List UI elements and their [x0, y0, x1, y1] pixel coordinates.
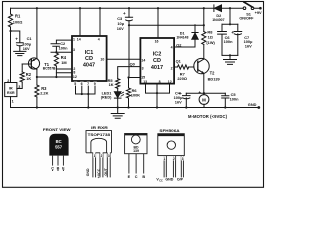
node C3 bottom	[128, 24, 130, 26]
diode D2 1N4007	[213, 5, 215, 12]
node gnd R6	[127, 106, 129, 108]
resistor R4	[54, 53, 58, 66]
svg-text:1: 1	[93, 154, 95, 158]
node R4 bottom pin12	[55, 76, 57, 78]
svg-text:4017: 4017	[151, 65, 163, 71]
svg-text:4: 4	[98, 37, 100, 41]
IC2 bottom pins 13 8 12 stubs and bus	[146, 84, 170, 108]
svg-text:1Ω: 1Ω	[208, 35, 213, 40]
LED1 light arrows	[121, 92, 124, 96]
svg-text:CD: CD	[153, 58, 161, 64]
BC557 pin letters C B E	[51, 166, 55, 171]
wire IR RXR pin1 to ground rail	[10, 97, 12, 108]
wire reset line C3 to D1/R8	[129, 21, 204, 26]
node gnd C5	[224, 106, 226, 108]
SFH506A pin numbers	[163, 156, 166, 161]
svg-text:557: 557	[55, 145, 63, 150]
wire IR RXR pin3 to R2	[17, 82, 22, 89]
resistor R8	[202, 32, 206, 45]
capacitor C6	[218, 24, 227, 55]
switch S1	[243, 7, 246, 10]
svg-text:3: 3	[108, 154, 110, 158]
svg-text:+: +	[179, 91, 182, 96]
wire R8 top to rail	[203, 8, 205, 31]
wire left supply branch	[10, 8, 12, 82]
node rail-pin14	[79, 7, 81, 9]
diode D1 1N4148	[192, 25, 198, 33]
node IC2 bus	[156, 92, 158, 94]
svg-text:BC: BC	[56, 139, 62, 144]
TSOP1738 pin numbers	[93, 153, 96, 158]
svg-text:16V: 16V	[245, 43, 252, 48]
transistor package BC557 TO-92	[49, 134, 68, 156]
+9V terminal dot	[259, 7, 262, 10]
BC557 leads	[53, 156, 64, 171]
svg-text:M: M	[202, 97, 206, 102]
wire +9V rail top	[11, 7, 260, 9]
svg-text:Q1: Q1	[176, 58, 182, 63]
wire R4 top to pin3 node	[55, 51, 57, 54]
node gnd LED	[117, 106, 119, 108]
ground rail bottom	[11, 107, 259, 109]
wire R7 to T2 base	[189, 66, 194, 68]
ground symbol under C1	[14, 51, 26, 55]
svg-text:Q2: Q2	[176, 43, 182, 48]
node T1 collector pin12	[36, 76, 38, 78]
IC1 bottom pins 5 6 7 9 stubs and bus	[76, 81, 96, 108]
node IC1 bus a	[81, 93, 83, 95]
svg-text:CC: CC	[159, 179, 163, 182]
node R4 top	[55, 51, 57, 53]
svg-text:FRONT VIEW: FRONT VIEW	[43, 127, 71, 132]
svg-text:139: 139	[133, 149, 139, 153]
svg-text:8: 8	[73, 70, 75, 74]
node C6C7 mid	[229, 23, 231, 25]
svg-text:100n: 100n	[230, 96, 239, 101]
node rail-C6C7	[229, 7, 231, 9]
svg-text:2: 2	[7, 79, 9, 83]
svg-text:3: 3	[18, 85, 20, 89]
svg-text:GND: GND	[165, 177, 173, 181]
node C1 tap	[9, 30, 11, 32]
svg-text:1M: 1M	[61, 60, 66, 65]
svg-text:+VCC: +VCC	[97, 168, 101, 178]
svg-text:+: +	[198, 90, 201, 95]
svg-text:3: 3	[142, 67, 144, 71]
svg-text:1N4007: 1N4007	[212, 18, 224, 22]
svg-text:12: 12	[73, 75, 77, 79]
svg-text:100K: 100K	[131, 92, 140, 97]
wire T1 collector node	[36, 69, 38, 107]
svg-text:3: 3	[73, 48, 75, 52]
node rail-C3	[128, 7, 130, 9]
svg-text:5: 5	[74, 82, 76, 86]
capacitor C1	[11, 31, 24, 51]
IR receiver module IR RXR	[5, 83, 17, 97]
wire IC2 pin4 Q2 to D1	[174, 46, 195, 48]
ground symbol under LED1	[111, 108, 124, 119]
wire motor node line C4 to C5	[186, 92, 225, 94]
svg-text:O/P: O/P	[177, 177, 184, 181]
svg-text:100n: 100n	[224, 39, 233, 44]
T2 emitter arrow	[201, 71, 204, 74]
wire node to IC1 pin8	[56, 72, 72, 74]
node gnd IC1	[87, 106, 89, 108]
svg-text:1: 1	[12, 99, 14, 103]
svg-text:(1W): (1W)	[206, 40, 215, 45]
svg-text:2.2K: 2.2K	[40, 90, 48, 95]
svg-text:16V: 16V	[117, 26, 124, 31]
svg-text:12: 12	[168, 80, 172, 84]
svg-text:T2: T2	[210, 71, 216, 76]
wire IC2 pin15 to reset node	[129, 77, 140, 79]
svg-text:16V: 16V	[175, 100, 182, 105]
wire T1 emitter to rail	[36, 8, 38, 58]
op-amp substitute: IC1 CD4047 box	[72, 36, 107, 81]
svg-text:Q0: Q0	[130, 61, 135, 66]
wire C6 C7 bottom link	[222, 55, 238, 59]
wire IC1 pin3 timing node	[51, 51, 72, 53]
wire C3 bottom down to IC2 pin15 node	[128, 25, 130, 77]
wire motor to ground rail	[203, 104, 205, 107]
svg-text:GND: GND	[248, 102, 257, 107]
svg-text:+9V: +9V	[255, 10, 262, 15]
svg-text:BC557B: BC557B	[43, 67, 56, 71]
ground symbol under C6 C7	[224, 60, 237, 65]
svg-text:C1: C1	[27, 36, 33, 41]
wire Q0 from IC2 pin3 to R5	[118, 67, 141, 79]
node C6C7 gnd	[229, 54, 231, 56]
svg-text:100Ω: 100Ω	[13, 20, 23, 25]
svg-text:+: +	[15, 37, 18, 42]
wire node to IC1 pin2	[56, 68, 72, 70]
transistor T1	[28, 58, 39, 69]
wire C6 C7 feed from rail	[229, 8, 231, 24]
LED LED1 red	[117, 88, 119, 92]
wire IC1 pin14 to rail	[79, 8, 81, 36]
svg-text:OUT: OUT	[104, 167, 108, 175]
wire R8 to T2 collector	[203, 45, 205, 60]
svg-text:1N4148: 1N4148	[176, 36, 188, 40]
wire IC1 pin10 to IC2 pin14	[107, 58, 141, 60]
node pin15 reset	[127, 76, 129, 78]
resistor R6	[126, 88, 130, 98]
wire C6 C7 top link	[222, 23, 238, 25]
svg-text:ON/OFF: ON/OFF	[239, 17, 254, 21]
node rail-pin16	[157, 7, 159, 9]
IC2 CD4017 box	[140, 38, 174, 84]
svg-text:3: 3	[182, 157, 184, 161]
resistor R3	[35, 85, 39, 97]
svg-text:B: B	[57, 166, 60, 170]
svg-text:100n: 100n	[59, 46, 68, 51]
svg-text:4047: 4047	[83, 62, 95, 68]
svg-text:M-MOTOR (<9VDC): M-MOTOR (<9VDC)	[188, 114, 228, 119]
node gnd C4	[185, 106, 187, 108]
wire IC2 pin2 Q1 to R7	[174, 66, 177, 68]
svg-text:GND: GND	[86, 168, 90, 176]
svg-text:1K: 1K	[26, 76, 31, 81]
svg-text:CD: CD	[85, 56, 93, 62]
svg-text:4: 4	[171, 46, 173, 50]
node rail-T1	[36, 7, 38, 9]
T1 emitter arrow PNP	[32, 59, 35, 61]
svg-text:E: E	[62, 166, 65, 170]
svg-text:9: 9	[94, 82, 96, 86]
node motor top	[203, 92, 205, 94]
svg-text:+: +	[231, 30, 234, 35]
resistor R2	[20, 72, 24, 82]
node R8 top	[203, 24, 205, 26]
svg-text:7: 7	[87, 82, 89, 86]
svg-text:BD139: BD139	[208, 76, 221, 81]
wire R2 top to T1 base	[21, 64, 23, 72]
wire T2 emitter to motor	[203, 73, 205, 94]
svg-text:2: 2	[171, 67, 173, 71]
svg-text:IC2: IC2	[153, 51, 162, 57]
capacitor C4 electrolytic	[183, 93, 191, 107]
svg-text:(RED): (RED)	[101, 96, 112, 100]
svg-text:16V: 16V	[23, 46, 30, 51]
capacitor C2	[51, 40, 72, 52]
border frame	[3, 2, 264, 188]
svg-text:6: 6	[81, 82, 83, 86]
node gnd R3	[36, 106, 38, 108]
capacitor C7 electrolytic	[234, 24, 242, 55]
transistor package BD139 TO-126	[125, 134, 147, 174]
motor M	[199, 95, 209, 105]
resistor R5	[116, 79, 120, 89]
svg-text:IR RXR: IR RXR	[91, 125, 108, 130]
svg-text:14: 14	[77, 37, 81, 41]
svg-text:+: +	[123, 11, 126, 16]
wire collector node to IC1 pin12	[37, 76, 72, 78]
svg-text:IR: IR	[9, 86, 13, 90]
wire IC1 pin4 to rail	[99, 8, 101, 36]
node rail-pin4	[99, 7, 101, 9]
wire C3 to rail	[128, 8, 130, 17]
svg-text:1: 1	[73, 38, 75, 42]
GND terminal dot	[257, 106, 260, 109]
node rail-R8	[203, 7, 205, 9]
svg-text:B: B	[142, 175, 145, 179]
svg-text:14: 14	[141, 59, 145, 63]
svg-text:R1: R1	[15, 14, 21, 19]
svg-text:SFH506A: SFH506A	[159, 129, 180, 133]
capacitor C5	[222, 93, 229, 107]
IR receiver package TSOP1738	[86, 131, 112, 178]
svg-text:1K: 1K	[109, 82, 114, 87]
svg-text:IC1: IC1	[85, 50, 94, 56]
transistor T2 BD139	[194, 58, 209, 73]
capacitor C3 electrolytic	[125, 17, 132, 21]
node gnd IC2	[156, 106, 158, 108]
svg-text:13: 13	[143, 80, 147, 84]
svg-text:1: 1	[163, 157, 165, 161]
node IC1 bus b	[87, 93, 89, 95]
IR receiver package SFH506A	[158, 134, 185, 178]
svg-text:TSOP1738: TSOP1738	[88, 133, 110, 137]
svg-text:E: E	[128, 175, 131, 179]
wire R6 to ground rail	[128, 78, 130, 108]
resistor R1	[8, 14, 12, 27]
svg-text:C: C	[51, 166, 54, 170]
svg-text:C: C	[135, 175, 138, 179]
svg-text:8: 8	[159, 80, 161, 84]
svg-text:2: 2	[101, 154, 103, 158]
wire R4 bottom node	[55, 66, 57, 77]
svg-text:220Ω: 220Ω	[177, 76, 187, 81]
svg-text:2: 2	[173, 157, 175, 161]
IC1 bottom pin labels with white backing	[74, 82, 77, 86]
resistor R7	[178, 65, 189, 69]
svg-text:RXR: RXR	[7, 91, 15, 95]
svg-text:16: 16	[155, 39, 159, 43]
svg-text:10: 10	[100, 57, 104, 61]
wire IC2 pin16 to rail	[157, 8, 159, 38]
